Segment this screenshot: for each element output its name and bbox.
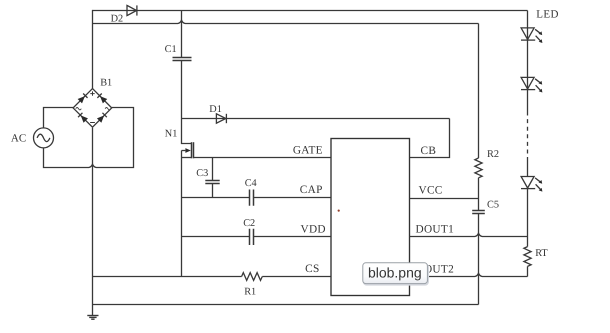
bridge plus mark <box>90 91 94 95</box>
svg-text:LED: LED <box>536 9 559 21</box>
wire second rail from bridge+ to R2 top with hop over C1 stem <box>93 20 479 23</box>
stray dot inside IC <box>338 210 340 212</box>
bridge diode upper-right <box>97 94 107 104</box>
wire dashed LED continuation <box>527 112 529 158</box>
capacitor C4 <box>250 190 254 206</box>
bridge minus mark <box>90 122 95 124</box>
svg-text:D2: D2 <box>111 13 124 24</box>
wire CAP rail left segment <box>182 197 250 199</box>
wire AC top to bridge left <box>44 108 74 128</box>
wire R2 top riser from second rail <box>478 24 480 159</box>
diode D2 <box>127 5 137 15</box>
wire C5 bottom down to ground rail <box>478 214 480 305</box>
svg-text:CB: CB <box>421 145 437 157</box>
op-amp U1 IC body <box>331 139 410 296</box>
AC sine symbol <box>37 134 50 141</box>
transistor N1 <box>182 119 194 159</box>
wire CAP rail right segment to IC <box>254 197 331 199</box>
wire N1 source vertical down to CS rail <box>181 151 183 277</box>
svg-text:GATE: GATE <box>293 145 323 157</box>
bridge ac tilde left <box>76 108 82 110</box>
svg-text:blob.png: blob.png <box>368 265 422 281</box>
bridge diode upper-left <box>78 94 88 104</box>
wire VDD rail left segment <box>182 236 250 238</box>
svg-text:D1: D1 <box>209 104 222 115</box>
svg-text:CAP: CAP <box>300 184 323 196</box>
wire R1 to CS pin <box>262 276 330 278</box>
svg-text:AC: AC <box>11 133 26 145</box>
AC source <box>34 128 54 148</box>
wire bridge right down and bottom to AC with hop <box>44 108 134 168</box>
svg-text:VDD: VDD <box>301 223 326 235</box>
wire top rail from bridge+ through D2 to LED string <box>93 10 528 12</box>
svg-text:R2: R2 <box>487 149 499 160</box>
svg-text:R1: R1 <box>244 286 256 297</box>
svg-text:CS: CS <box>305 263 319 275</box>
wire left vertical bridge+ riser <box>92 10 94 89</box>
wire DOUT1 pin to LED string with hop <box>410 233 528 236</box>
svg-text:RT: RT <box>535 248 548 259</box>
svg-text:C4: C4 <box>245 178 257 189</box>
wire VDD rail right segment to IC <box>254 236 331 238</box>
LED string riser <box>527 11 529 112</box>
bridge B1 diamond <box>73 89 112 128</box>
wire LED to DOUT1 node <box>527 157 529 247</box>
svg-text:N1: N1 <box>165 128 178 139</box>
capacitor C3 <box>205 158 219 198</box>
wire R2 to C5 node <box>478 178 480 211</box>
svg-text:C2: C2 <box>243 218 255 229</box>
LED D5 bottom <box>521 177 542 192</box>
wire RT bottom to DOUT2 rail <box>527 266 529 276</box>
diode D1 <box>182 114 450 123</box>
LED D4 middle <box>521 77 542 92</box>
resistor RT <box>524 247 531 267</box>
bridge diode lower-left <box>78 113 88 123</box>
svg-text:B1: B1 <box>100 77 112 88</box>
wire VCC pin to R2/C5 node <box>410 198 479 200</box>
wire bridge bottom vertical to ground <box>92 128 94 315</box>
capacitor C1 <box>173 11 192 119</box>
svg-text:C5: C5 <box>487 200 499 211</box>
ground <box>87 316 98 320</box>
svg-text:C1: C1 <box>165 44 177 55</box>
bridge ac tilde right <box>105 108 111 110</box>
bottom ground rail <box>93 304 479 306</box>
resistor R2 <box>475 158 482 178</box>
resistor R1 <box>242 273 263 281</box>
svg-text:C3: C3 <box>196 168 208 179</box>
svg-text:DOUT1: DOUT1 <box>416 224 455 236</box>
capacitor C2 <box>250 229 254 245</box>
LED D3 top <box>521 28 542 43</box>
bridge diode lower-right <box>97 113 107 123</box>
wire CS rail from ground riser to R1 <box>93 276 242 278</box>
svg-text:VCC: VCC <box>419 185 443 197</box>
tooltip blob.png <box>363 263 428 285</box>
capacitor C5 <box>472 211 485 214</box>
wire DOUT2 pin to RT bottom with hop <box>410 273 528 276</box>
wire D1 cathode down to CB pin <box>410 119 450 158</box>
wire gate to IC GATE pin <box>194 157 331 159</box>
